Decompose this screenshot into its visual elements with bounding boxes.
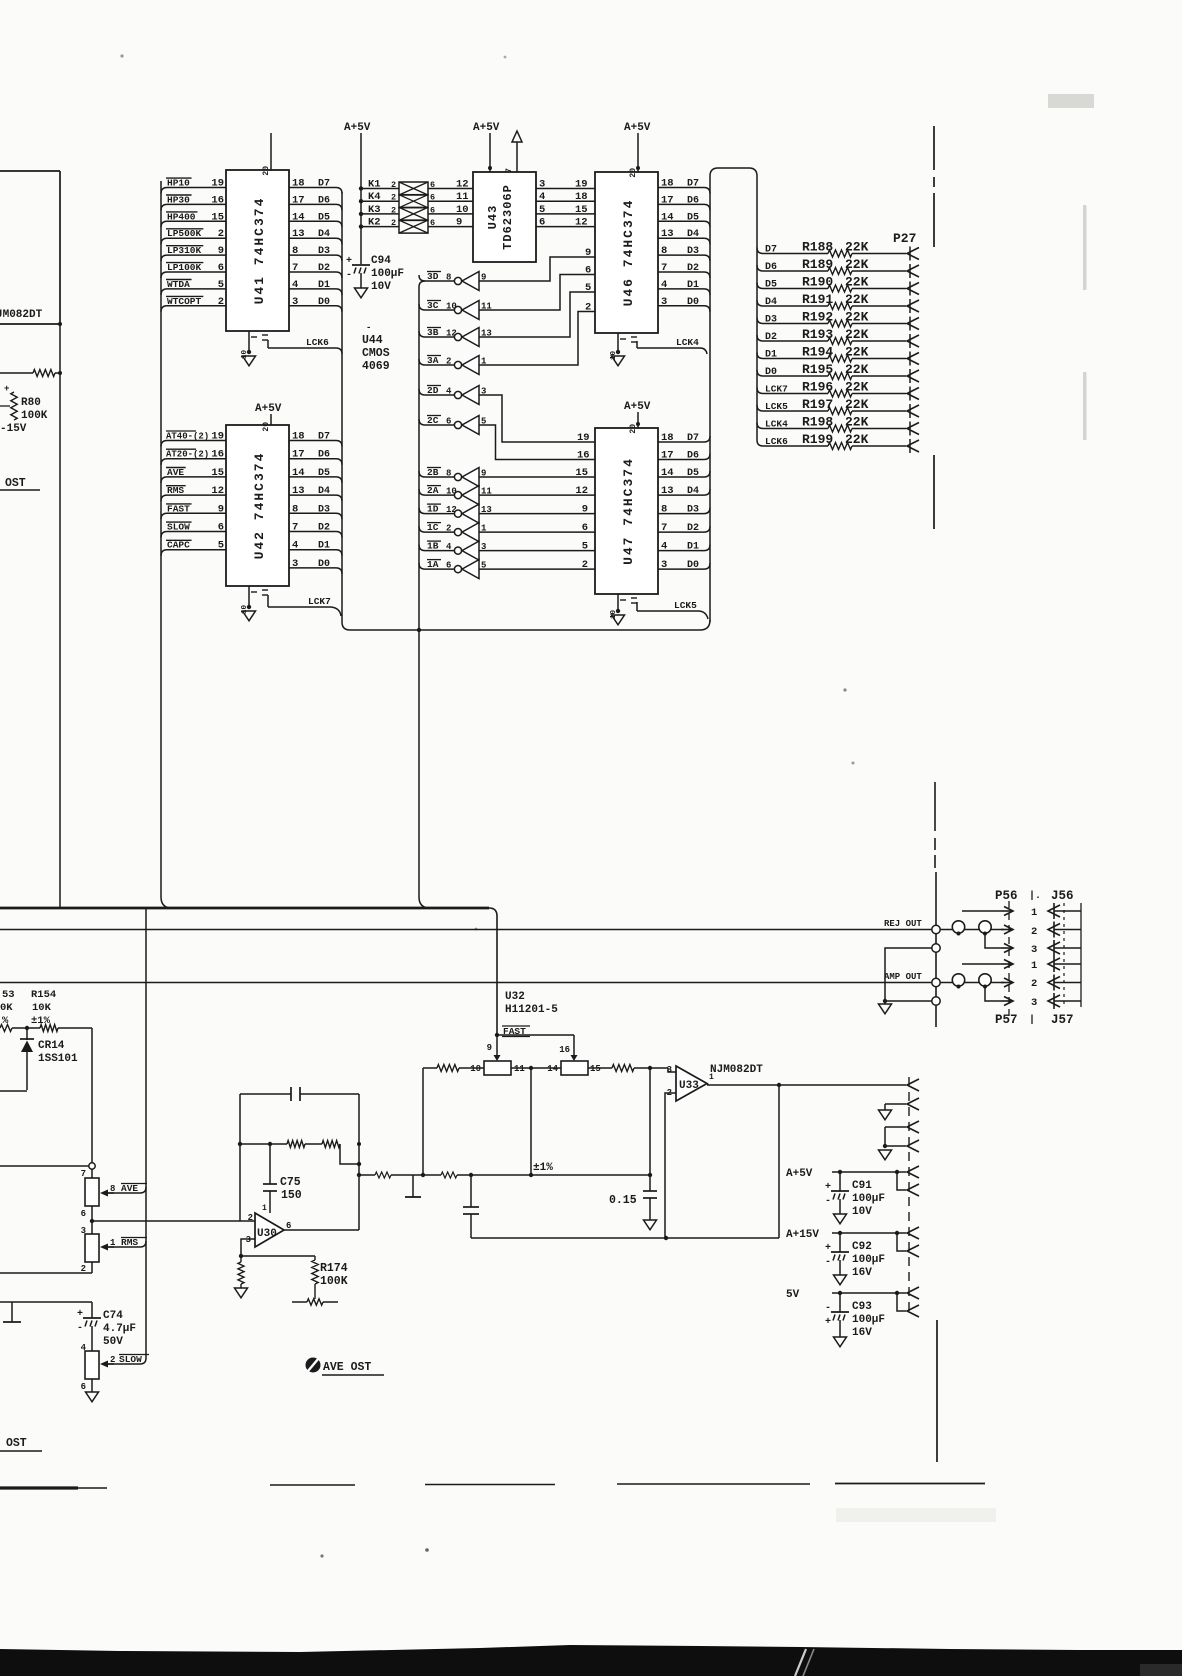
wire U47 pin 8 D3 to bus C [658,504,710,516]
wire pot RMS bottom to left edge [0,1262,92,1274]
svg-text:R194: R194 [802,345,833,360]
svg-text:CAPC: CAPC [167,540,190,551]
IC U42 74HC374 [226,425,289,586]
inverter U44 2D [419,385,486,405]
inverter U45 2A [419,485,492,505]
inverter U45 2B [419,467,486,487]
connector dashed line J56/J57 [1063,903,1065,1008]
wire U42 pin 7 D2 to bus B [289,522,342,538]
svg-text:13: 13 [661,228,674,240]
svg-text:AT40-(2): AT40-(2) [166,432,209,442]
svg-text:2: 2 [1031,978,1037,990]
svg-text:16V: 16V [852,1327,872,1339]
resistor R174 100K [241,1256,348,1305]
wire ground rail y1302 [0,1301,92,1303]
svg-text:6: 6 [582,522,588,534]
wire U43 pin 6 to U46 pin 12 [536,217,595,229]
svg-text:TD62306P: TD62306P [501,184,515,250]
svg-text:AMP OUT: AMP OUT [884,972,922,982]
wire inverter 2A output to U47 pin 12 [479,485,595,497]
svg-text:8: 8 [661,245,667,257]
svg-text:6: 6 [81,1382,86,1392]
svg-text:1: 1 [1031,907,1037,919]
svg-text:100µF: 100µF [852,1254,885,1266]
svg-text:WTDA: WTDA [167,279,190,290]
svg-text:14: 14 [661,467,674,479]
svg-text:2B: 2B [427,467,439,478]
IC U31 NJM082DT (partial, page edge) [0,171,62,326]
svg-text:12: 12 [456,179,469,191]
svg-text:2C: 2C [427,415,439,426]
U43 pin 7 pull-up arrow [505,131,522,173]
svg-text:LP100K: LP100K [167,262,202,273]
wire inverter 2B output to U47 pin 15 [479,467,595,479]
svg-text:U30: U30 [257,1228,277,1240]
wire U41 pin 4 D1 to bus B [289,279,342,295]
svg-text:-: - [346,270,352,281]
svg-text:8: 8 [292,503,298,515]
svg-text:7: 7 [661,522,667,534]
svg-text:8: 8 [446,469,451,479]
svg-text:7: 7 [661,262,667,274]
resistor R197 22K row (LCK5) to P27 [757,397,919,417]
svg-text:4: 4 [661,541,667,553]
wire U41 pin 14 D5 to bus B [289,211,342,227]
scan smudge artifacts [120,54,1094,1557]
connector dashed line (bottom right) [908,1077,910,1317]
wire with resistor to divider (y373) [0,370,62,377]
svg-text:19: 19 [577,432,590,444]
svg-text:AVE: AVE [167,467,184,478]
svg-text:150: 150 [281,1189,302,1202]
svg-text:|.: |. [1029,890,1041,902]
P56 pin 1 row [962,907,1037,920]
svg-text:12: 12 [575,217,588,229]
svg-text:1SS101: 1SS101 [38,1053,78,1065]
svg-text:50V: 50V [103,1336,123,1348]
svg-text:LCK6: LCK6 [306,337,329,348]
wire pot AVE bottom to U30 node [81,1206,255,1236]
wire/input LP100K to U41 pin 6 [161,262,226,278]
svg-text:|: | [1029,1014,1035,1026]
svg-text:CR14: CR14 [38,1040,65,1052]
wire H1 (thick horizontal to U32) [0,908,497,1035]
inverter U44 3B [419,327,492,347]
svg-text:+: + [825,1317,831,1328]
svg-text:6: 6 [218,262,224,274]
P57 pin 3 row [985,987,1037,1009]
svg-text:R189: R189 [802,257,833,272]
left section divider vertical wire [59,324,61,908]
net label OST (bottom left) [0,1437,42,1451]
svg-text:NJM082DT: NJM082DT [710,1064,763,1076]
svg-text:J57: J57 [1051,1013,1074,1027]
svg-text:3D: 3D [427,271,439,282]
svg-text:D1: D1 [318,541,330,552]
jumper switch K1 row [359,179,473,196]
svg-text:5: 5 [218,540,224,552]
wire U33 pin2 feedback [665,1093,676,1238]
wire/net RMS to bus [108,1237,147,1248]
potentiometer (AVE trim) [85,1178,115,1206]
svg-text:C92: C92 [852,1241,872,1253]
wire U46 pin 18 D7 to bus C [658,178,710,194]
svg-text:OST: OST [6,1437,27,1450]
page border line segment bottom right [936,1320,938,1462]
svg-text:4: 4 [292,540,298,552]
svg-text:12: 12 [575,485,588,497]
svg-text:-: - [366,323,371,333]
IC U41 74HC374 [226,170,289,331]
resistor R196 22K row (LCK7) to P27 [757,380,919,400]
svg-text:D5: D5 [687,212,699,223]
svg-text:2: 2 [391,180,396,190]
svg-text:D0: D0 [318,297,330,308]
capacitor 0.15 with ground [609,1068,657,1230]
wire/input HP30 to U41 pin 16 [161,194,226,210]
svg-text:5: 5 [539,204,545,216]
svg-text:0.15: 0.15 [609,1194,637,1207]
svg-text:100µF: 100µF [852,1314,885,1326]
jumper switch K3 row [359,204,473,221]
wire LCK7 from U42 to bus B [268,595,341,616]
svg-text:53: 53 [2,989,15,1001]
svg-text:D3: D3 [687,505,699,516]
capacitor C94 100uF 10V [346,255,404,293]
labels P56 J56 [995,889,1074,903]
svg-text:D2: D2 [765,332,777,343]
svg-text:HP400: HP400 [167,211,196,222]
svg-text:17: 17 [292,194,305,206]
svg-text:R190: R190 [802,275,833,290]
svg-text:6: 6 [446,417,451,427]
svg-text:R199: R199 [802,432,833,447]
svg-text:D7: D7 [687,179,699,190]
svg-text:D0: D0 [687,297,699,308]
wire analog rail y1175 with resistors [357,1172,652,1178]
wire U47 pin 14 D5 to bus C [658,467,710,479]
svg-text:1D: 1D [427,504,439,515]
svg-text:3: 3 [292,296,298,308]
svg-text:6: 6 [585,265,591,277]
wire U46 pin 4 D1 to bus C [658,279,710,295]
svg-text:20: 20 [262,422,271,432]
svg-text:CMOS: CMOS [362,347,390,360]
wire inverter 1C output to U47 pin 6 [479,522,595,534]
wire U42 pin 13 D4 to bus B [289,485,342,501]
power label A+5V (K switch column) [344,122,371,264]
wire U30 output to feedback node [284,1094,359,1230]
svg-text:U46 74HC374: U46 74HC374 [621,199,636,307]
svg-text:18: 18 [292,431,305,443]
wire bus A vertical (left label bus) [161,181,172,908]
wire U30 feedback top with capacitor [240,1087,359,1221]
wire/net SLOW to bus [108,1354,149,1365]
wire bus left analog vertical (x146) [145,909,147,1358]
svg-text:20: 20 [629,424,638,434]
svg-text:7: 7 [292,522,298,534]
svg-text:WTCOPT: WTCOPT [167,296,202,307]
svg-text:J56: J56 [1051,889,1074,903]
inverter U45 1C [419,522,487,542]
net label OST (left) [0,477,40,490]
analog switch U32 box 2 [547,1061,601,1075]
svg-text:22K: 22K [845,397,869,412]
jumper switch K2 row [359,217,473,234]
inverter U44 3A [419,355,487,375]
wire REJ OUT horizontal [0,929,932,931]
wire U41 pin 7 D2 to bus B [289,262,342,278]
svg-text:+: + [346,256,352,267]
U46 clock/OE pins and ground [610,333,637,366]
svg-text:22K: 22K [845,380,869,395]
svg-text:7: 7 [292,262,298,274]
U46 A+5V power pin 20 [624,122,651,178]
svg-text:P57: P57 [995,1013,1018,1027]
resistor R80 100K [0,384,48,422]
svg-text:22K: 22K [845,292,869,307]
U44 CMOS 4069 label [362,323,390,373]
wire U47 pin 4 D1 to bus C [658,541,710,553]
inverter U45 1A [419,559,486,579]
wire P56-3/P57-3 ground return [879,948,933,1014]
svg-text:9: 9 [582,504,588,516]
svg-text:2: 2 [1031,926,1037,938]
svg-text:9: 9 [456,217,462,229]
svg-text:22K: 22K [845,345,869,360]
svg-text:D2: D2 [318,523,330,534]
svg-text:3A: 3A [427,355,439,366]
resistor R193 22K row (D2) to P27 [757,327,919,347]
svg-text:3B: 3B [427,327,439,338]
wire U47 pin 13 D4 to bus C [658,485,710,497]
wire FAST node to U32 switch pins [487,1035,578,1061]
svg-text:U47 74HC374: U47 74HC374 [621,457,636,565]
net label FAST at U32 [495,1026,530,1037]
svg-text:H11201-5: H11201-5 [505,1004,558,1016]
potentiometer (SLOW trim) [85,1351,115,1379]
svg-text:C74: C74 [103,1310,123,1322]
U42 A+5V power pin 20 [255,403,282,432]
svg-text:HP10: HP10 [167,178,190,189]
svg-text:0K: 0K [0,1002,13,1014]
wire LCK4 from U46 to bus C [637,337,707,354]
resistor R194 22K row (D1) to P27 [757,345,919,365]
svg-text:+: + [825,1243,831,1254]
svg-text:D4: D4 [687,229,699,240]
svg-text:K3: K3 [368,204,381,216]
wire/input AVE to U42 pin 15 [161,467,226,483]
svg-text:15: 15 [211,467,224,479]
svg-text:19: 19 [211,178,224,190]
pot SLOW bottom ground [81,1379,99,1402]
svg-text:LCK5: LCK5 [765,401,788,412]
wire/input LP310K to U41 pin 9 [161,245,226,261]
svg-text:14: 14 [292,211,305,223]
svg-text:13: 13 [661,485,674,497]
U43 power pin 8 with A+5V [473,122,500,172]
test point circles on AMP OUT [940,974,1013,989]
wire inverter 1D output to U47 pin 9 [479,504,595,516]
svg-text:A+5V: A+5V [786,1168,813,1180]
connector J56 prongs [1048,903,1081,956]
wire U41 pin 13 D4 to bus B [289,228,342,244]
wire U42 pin 17 D6 to bus B [289,449,342,465]
wire bus B vertical with bottom run to bus C [342,192,710,630]
svg-text:15: 15 [575,467,588,479]
svg-text:-: - [825,1196,831,1207]
wire vertical x423 to U32 input [422,1068,424,1175]
IC U43 TD62306P [473,172,536,262]
svg-text:10V: 10V [371,281,391,293]
svg-text:22K: 22K [845,275,869,290]
wire/input AT40-(2) to U42 pin 19 [161,431,226,447]
svg-text:D6: D6 [318,450,330,461]
svg-text:8: 8 [661,504,667,516]
svg-text:U44: U44 [362,334,383,347]
svg-text:100µF: 100µF [852,1193,885,1205]
svg-text:LCK5: LCK5 [674,600,697,611]
svg-text:D7: D7 [318,432,330,443]
svg-text:D5: D5 [318,212,330,223]
svg-text:R198: R198 [802,415,833,430]
wire U46 pin 17 D6 to bus C [658,194,710,210]
svg-text:6: 6 [539,217,545,229]
svg-text:5V: 5V [786,1289,800,1301]
svg-text:K2: K2 [368,217,381,229]
svg-text:16: 16 [559,1045,570,1055]
svg-text:D4: D4 [765,297,777,308]
wire/input WTDA to U41 pin 5 [161,279,226,295]
svg-text:5: 5 [218,279,224,291]
svg-text:C94: C94 [371,255,391,267]
svg-text:FAST: FAST [167,503,190,514]
svg-text:D3: D3 [318,504,330,515]
svg-text:19: 19 [575,179,588,191]
svg-text:A+5V: A+5V [624,122,651,134]
svg-text:-: - [77,1323,83,1334]
ground for C94 [355,288,368,298]
svg-text:R154: R154 [31,989,56,1001]
capacitor C93 100uF 16V [825,1293,885,1347]
svg-text:2: 2 [585,302,591,314]
svg-text:RMS: RMS [167,485,184,496]
svg-text:U33: U33 [679,1080,699,1092]
P56 pin 3 row [985,934,1037,957]
resistor R189 22K row (D6) to P27 [757,257,919,277]
svg-text:-: - [825,1257,831,1268]
inverter U45 1D [419,504,492,523]
svg-text:11: 11 [456,191,469,203]
wire/input HP10 to U41 pin 19 [161,178,226,194]
svg-text:17: 17 [661,194,674,206]
svg-text:15: 15 [211,211,224,223]
svg-text:D1: D1 [687,280,699,291]
wire U47 pin 3 D0 to bus C [658,559,710,571]
wire U43 pin 4 to U46 pin 18 [536,191,595,203]
wire U47 pin 17 D6 to bus C [658,450,710,462]
inverter U44 3C [419,300,492,320]
wire U32 row with resistors [423,1065,676,1176]
wire U41 pin 18 D7 to bus B [289,178,342,194]
inverter U44 3D [419,271,486,291]
svg-text:LCK4: LCK4 [676,337,699,348]
svg-text:1: 1 [1031,960,1037,972]
svg-text:P27: P27 [893,231,916,246]
svg-text:D1: D1 [687,542,699,553]
svg-text:17: 17 [292,449,305,461]
resistor R190 22K row (D5) to P27 [757,275,919,295]
svg-text:16V: 16V [852,1267,872,1279]
connector rows near U33 output [879,1098,920,1120]
wire U42 pin 8 D3 to bus B [289,503,342,519]
svg-text:4: 4 [539,191,545,203]
capacitor at x471 to bottom rail [463,1175,479,1238]
svg-text:2: 2 [446,524,451,534]
op-amp U30 [246,1213,292,1247]
svg-text:22K: 22K [845,240,869,255]
svg-text:A+5V: A+5V [624,401,651,413]
wire inverter 3C output to U46 pin 6 [479,265,595,311]
svg-text:REJ OUT: REJ OUT [884,919,922,929]
svg-text:LCK6: LCK6 [765,436,788,447]
capacitor C92 100uF 16V [825,1233,885,1285]
power net A+5V row [786,1166,919,1196]
wire U41 pin 3 D0 to bus B [289,296,342,312]
svg-text:HP30: HP30 [167,194,190,205]
svg-text:LP310K: LP310K [167,245,202,256]
wire/input LP500K to U41 pin 2 [161,228,226,244]
wire bus C vertical to top run and bus D [710,168,763,622]
svg-text:22K: 22K [845,257,869,272]
resistor R195 22K row (D0) to P27 [757,362,919,382]
svg-text:13: 13 [292,485,305,497]
svg-text:R193: R193 [802,327,833,342]
wire U41 pin 17 D6 to bus B [289,194,342,210]
svg-text:D7: D7 [687,433,699,444]
svg-text:12: 12 [211,485,224,497]
junction bus B / inverter input bus [417,628,421,632]
svg-text:16: 16 [211,194,224,206]
test point circles on REJ OUT [940,921,1013,936]
svg-text:D5: D5 [687,468,699,479]
section border dashed horizontal [0,1484,985,1489]
U41 clock/OE pins and ground [241,331,268,366]
svg-text:9: 9 [218,245,224,257]
op-amp U33 NJM082DT [667,1064,764,1101]
svg-text:-15V: -15V [0,423,27,435]
svg-text:2: 2 [218,296,224,308]
svg-text:SLOW: SLOW [167,522,190,533]
wire U30 feedback middle with two resistors [238,1141,361,1167]
svg-text:D4: D4 [318,229,330,240]
svg-text:100K: 100K [320,1275,348,1288]
svg-text:D6: D6 [318,195,330,206]
svg-text:A+15V: A+15V [786,1229,819,1241]
svg-text:16: 16 [211,449,224,461]
svg-text:14: 14 [547,1064,558,1074]
svg-text:22K: 22K [845,362,869,377]
wire LCK6 from U41 to bus B [268,337,342,354]
svg-text:4: 4 [446,387,452,397]
svg-text:1B: 1B [427,541,439,552]
wire LCK5 from U47 to bus C [637,600,708,619]
wire/input FAST to U42 pin 9 [161,503,226,519]
svg-text:2: 2 [248,1213,253,1223]
svg-text:D0: D0 [687,560,699,571]
wire U46 pin 13 D4 to bus C [658,228,710,244]
svg-text:9: 9 [487,1043,492,1053]
